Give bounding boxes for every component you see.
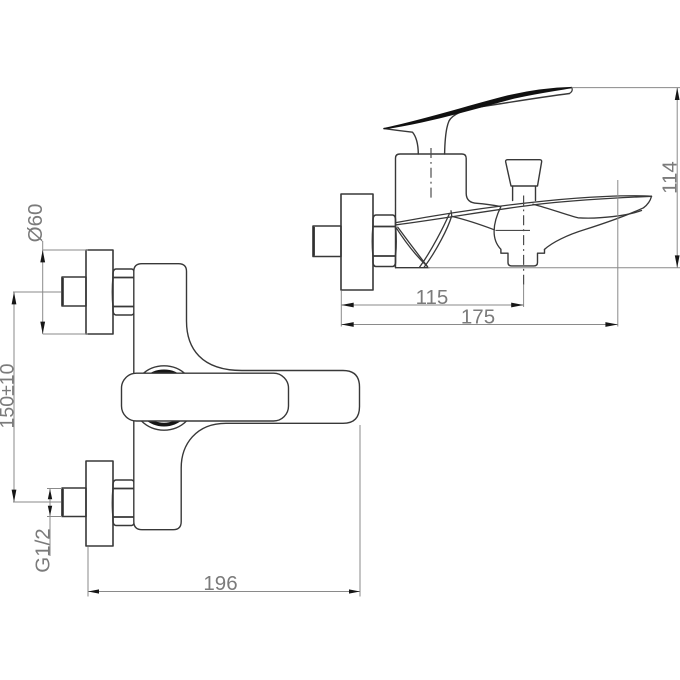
svg-text:150±10: 150±10 (0, 363, 19, 428)
svg-text:114: 114 (658, 161, 680, 194)
svg-text:Ø60: Ø60 (24, 204, 47, 243)
svg-text:175: 175 (461, 306, 495, 329)
svg-text:G1/2: G1/2 (32, 528, 55, 572)
svg-text:196: 196 (203, 572, 237, 595)
svg-text:115: 115 (416, 286, 449, 309)
